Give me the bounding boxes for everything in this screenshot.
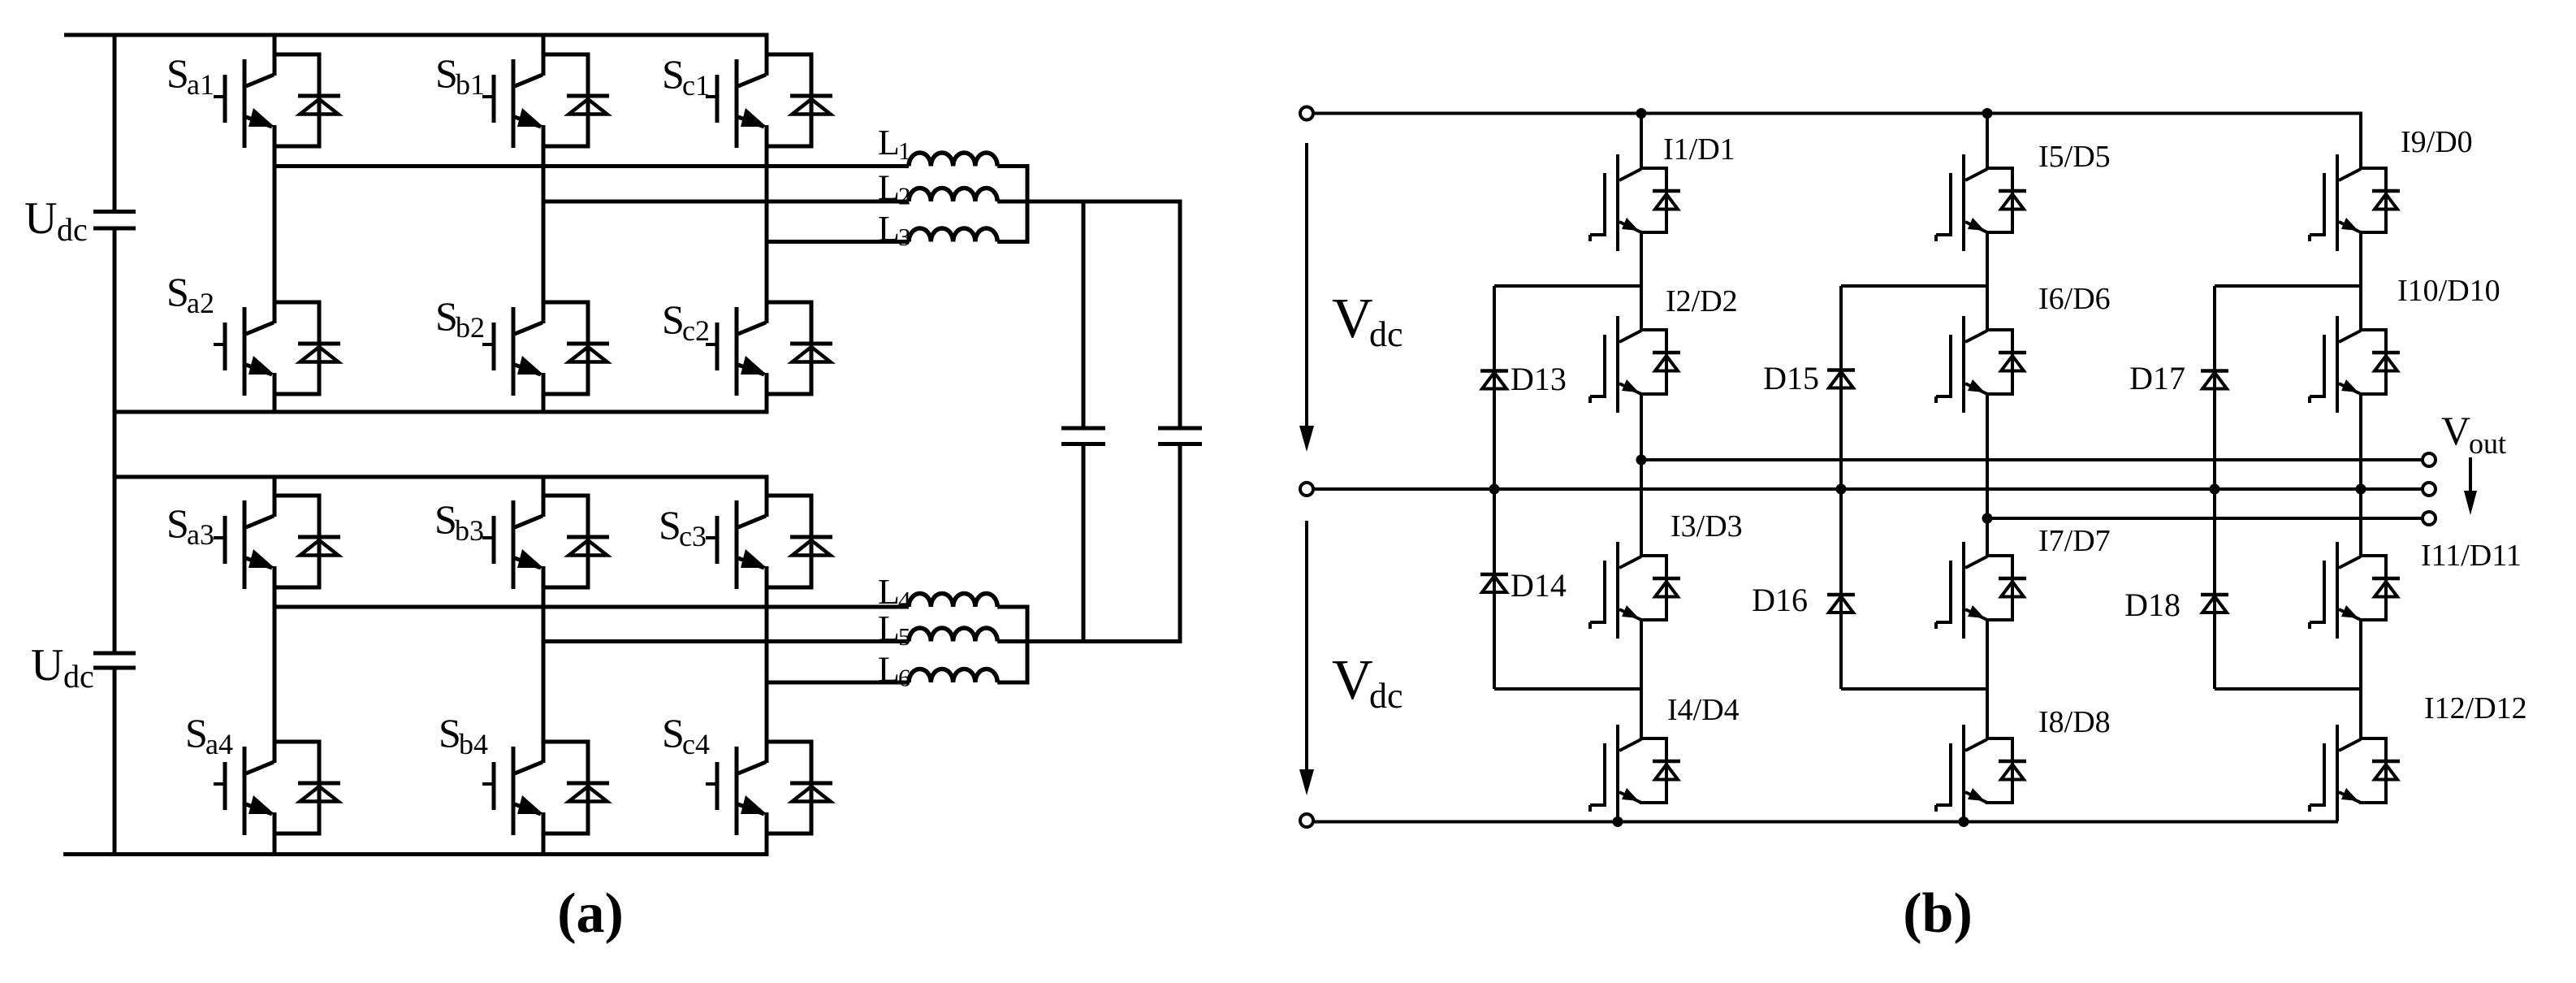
svg-text:b1: b1 [456, 68, 485, 101]
svg-text:U: U [24, 193, 57, 244]
svg-text:V: V [1332, 288, 1373, 350]
svg-text:4: 4 [898, 586, 911, 614]
svg-text:a1: a1 [187, 68, 214, 101]
svg-text:S: S [662, 710, 685, 756]
svg-text:V: V [1332, 649, 1373, 712]
svg-text:out: out [2469, 427, 2506, 460]
svg-text:S: S [166, 269, 189, 314]
svg-text:D14: D14 [1511, 567, 1567, 604]
svg-text:b3: b3 [455, 514, 484, 547]
svg-text:2: 2 [898, 182, 911, 210]
svg-text:I9/D0: I9/D0 [2401, 125, 2473, 159]
svg-text:D13: D13 [1511, 361, 1567, 397]
svg-text:5: 5 [898, 622, 911, 651]
svg-text:dc: dc [57, 211, 88, 248]
svg-text:3: 3 [898, 223, 911, 251]
svg-text:V: V [2441, 408, 2470, 453]
svg-text:D18: D18 [2124, 587, 2181, 623]
svg-text:I4/D4: I4/D4 [1667, 693, 1740, 727]
svg-text:dc: dc [1369, 314, 1403, 354]
svg-text:S: S [659, 502, 681, 548]
svg-text:S: S [434, 496, 457, 542]
svg-text:(a): (a) [557, 882, 624, 945]
svg-text:L: L [878, 650, 900, 690]
svg-text:D16: D16 [1752, 582, 1808, 618]
svg-text:S: S [662, 297, 685, 342]
svg-text:L: L [878, 209, 900, 249]
svg-text:I12/D12: I12/D12 [2424, 691, 2527, 725]
svg-text:I1/D1: I1/D1 [1663, 132, 1735, 167]
svg-text:S: S [435, 50, 458, 96]
svg-text:a2: a2 [187, 287, 214, 319]
svg-text:L: L [878, 123, 900, 162]
svg-text:b2: b2 [456, 311, 485, 344]
svg-text:a3: a3 [187, 518, 214, 551]
svg-text:c3: c3 [679, 520, 707, 552]
svg-text:I11/D11: I11/D11 [2421, 539, 2522, 573]
svg-text:I8/D8: I8/D8 [2038, 705, 2111, 739]
svg-text:L: L [878, 168, 900, 208]
svg-text:I2/D2: I2/D2 [1666, 284, 1738, 318]
svg-text:c2: c2 [682, 314, 710, 347]
svg-text:S: S [439, 710, 461, 756]
svg-text:6: 6 [898, 664, 911, 692]
svg-text:D15: D15 [1763, 360, 1819, 396]
svg-text:(b): (b) [1903, 882, 1973, 945]
svg-text:I5/D5: I5/D5 [2038, 140, 2111, 174]
svg-text:I3/D3: I3/D3 [1671, 509, 1743, 543]
svg-text:L: L [878, 572, 900, 612]
svg-text:S: S [435, 293, 458, 339]
svg-text:1: 1 [898, 136, 911, 165]
svg-text:b4: b4 [459, 728, 488, 760]
svg-text:L: L [878, 608, 900, 648]
svg-text:dc: dc [1369, 676, 1403, 716]
svg-text:S: S [662, 51, 685, 97]
svg-text:S: S [185, 710, 208, 756]
svg-text:dc: dc [63, 658, 94, 695]
svg-text:I10/D10: I10/D10 [2397, 274, 2500, 308]
svg-text:I7/D7: I7/D7 [2038, 524, 2111, 558]
svg-text:a4: a4 [205, 728, 233, 760]
svg-text:S: S [166, 50, 189, 96]
svg-text:c1: c1 [682, 69, 710, 102]
svg-text:S: S [166, 500, 189, 546]
svg-text:c4: c4 [682, 728, 710, 760]
svg-text:U: U [31, 640, 63, 691]
svg-text:I6/D6: I6/D6 [2038, 282, 2111, 316]
svg-text:D17: D17 [2129, 360, 2185, 396]
